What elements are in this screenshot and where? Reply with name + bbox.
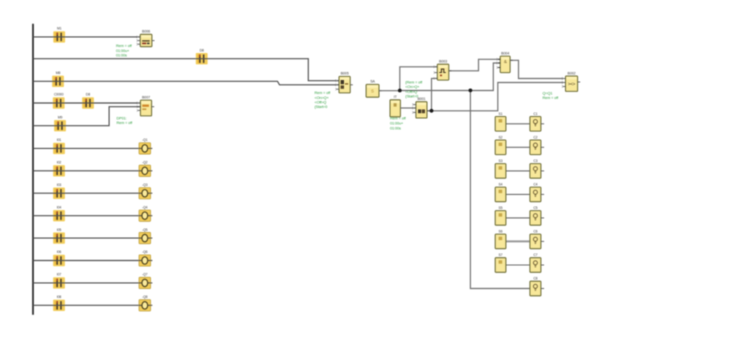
wire S2 to C2 [506,146,530,148]
svg-text:-Q4: -Q4 [142,205,148,209]
B001 parameters [405,81,423,99]
svg-text:-Q5: -Q5 [142,228,148,232]
output block C5 [530,206,544,225]
svg-text:S4: S4 [499,183,503,187]
svg-text:-Q1: -Q1 [142,138,148,142]
wire rung1 [33,36,140,38]
svg-text:-Q6: -Q6 [142,250,148,254]
wire rung I7 [33,282,152,284]
coil Q8 [139,295,151,311]
output block C3 [530,159,544,178]
coil Q3 [139,183,151,199]
coil Q1 [139,138,151,154]
svg-text:<Off>Q: <Off>Q [315,100,327,104]
output block C1 [530,112,544,131]
svg-text:Rem = off: Rem = off [390,117,407,121]
contact D8 (rung2) [196,48,208,64]
marker block S1 [495,112,506,131]
contact C0000 (rung4) [53,93,65,109]
coil Q6 [139,250,151,266]
wire S3 to C3 [506,170,530,172]
svg-text:B006: B006 [142,30,150,34]
svg-text:S1: S1 [499,112,503,116]
svg-text:M1: M1 [57,27,62,31]
svg-text:M9: M9 [58,115,63,119]
svg-text:M8: M8 [56,71,61,75]
svg-text:B007: B007 [142,95,150,99]
contact D8 (rung4) [82,93,94,109]
svg-text:01:00u+: 01:00u+ [390,122,404,126]
coil Q4 [139,205,151,221]
svg-text:C6: C6 [533,230,537,234]
contact I7 [53,273,65,289]
contact I2 [53,161,65,177]
svg-text:(Start=0: (Start=0 [405,94,418,98]
svg-text:Rem = off: Rem = off [315,91,332,95]
latch block B001 [412,97,429,118]
svg-text:I01: I01 [57,138,62,142]
svg-text:01:00s: 01:00s [390,127,401,131]
wire rung I1 [33,147,152,149]
wire rung I6 [33,260,152,262]
wire S1 to C1 [506,123,530,125]
coil Q5 [139,228,151,244]
timer block B007 [137,95,154,116]
wire S4 to C4 [506,193,530,195]
svg-text:D8: D8 [86,93,90,97]
svg-text:-Q2: -Q2 [142,161,148,165]
junction node main/down branch [469,89,473,93]
wire B003 output to B004 pin1 [449,59,501,71]
output block C8 [530,277,544,296]
svg-text:S: S [371,88,374,93]
contact M9 (rung5) [54,115,66,131]
output block C6 [530,230,544,249]
svg-text:Rem = off: Rem = off [117,121,134,125]
svg-text:B002: B002 [568,71,576,75]
svg-text:I02: I02 [57,161,62,165]
contact M8 (rung3) [52,71,64,87]
svg-text:(Rem = off: (Rem = off [405,81,423,85]
marker block S6 [495,230,506,249]
contact I6 [53,250,65,266]
left power bus rail [32,24,34,315]
contact I4 [53,205,65,221]
contact I1 [53,138,65,154]
svg-text:B004: B004 [501,51,509,55]
svg-text:C7: C7 [533,253,537,257]
svg-text:S6: S6 [499,230,503,234]
junction node B001 output [430,109,434,113]
wire IT output to B001 [400,107,416,109]
wire rung I3 [33,192,152,194]
output block C2 [530,136,544,155]
contact I5 [53,228,65,244]
B002 parameters [543,91,560,100]
svg-text:&: & [504,59,507,64]
svg-text:B003: B003 [439,60,447,64]
contact M1 (rung1) [53,27,65,43]
wire S6 to C6 [506,240,530,242]
marker block S4 [495,183,506,202]
svg-text:S5: S5 [499,206,503,210]
svg-text:I04: I04 [57,205,62,209]
contact I8 [53,295,65,311]
compare block B002 [562,71,580,91]
IT block parameters [390,117,407,131]
source block IT [390,95,403,117]
svg-text:<Off>Q: <Off>Q [405,90,417,94]
output block C7 [530,253,544,272]
svg-text:-Q3: -Q3 [142,183,148,187]
wire B004 output to B002 pin1 [510,60,563,78]
source block SA [366,80,382,98]
svg-text:D8: D8 [200,48,204,52]
wire rung3 [33,81,339,85]
svg-text:S7: S7 [499,253,503,257]
wire rung I8 [33,304,152,306]
svg-text:I08: I08 [57,295,62,299]
wire rung I2 [33,170,152,172]
coil Q7 [139,273,151,289]
logic block B004 [497,51,513,72]
wire SA output [379,90,400,92]
wire rung I4 [33,215,152,217]
svg-text:C2: C2 [533,136,537,140]
contact I3 [53,183,65,199]
wire rung4 [33,102,140,104]
svg-text:<On>Q+: <On>Q+ [405,85,420,89]
svg-text:Q=Q1: Q=Q1 [543,91,553,95]
marker block S5 [495,206,506,225]
coil Q2 [139,161,151,177]
wire S5 to C5 [506,217,530,219]
svg-text:C5: C5 [533,206,537,210]
wire rung2 to corner [33,59,339,81]
svg-text:B001: B001 [417,97,425,101]
svg-text:><>: ><> [568,82,576,87]
svg-text:01:00s: 01:00s [116,54,127,58]
wire S7 to C7 [506,264,530,266]
marker block S7 [495,253,506,272]
svg-text:S2: S2 [499,136,503,140]
svg-text:(Start=0: (Start=0 [315,105,328,109]
svg-text:C0000: C0000 [54,93,64,97]
timer B006 parameters [116,44,133,58]
svg-text:B005: B005 [341,72,349,76]
marker block S2 [495,136,506,155]
wire B001 branch up to B003 pin3 [432,78,438,110]
output block C4 [530,183,544,202]
wire branch up to B003 pin1 [400,67,438,91]
latch B005 parameters [315,91,332,109]
timer B007 parameters [117,116,134,125]
svg-text:Rem = off: Rem = off [543,96,560,100]
svg-text:<On>Q+: <On>Q+ [315,96,330,100]
svg-text:C8: C8 [533,277,537,281]
svg-text:C3: C3 [533,159,537,163]
svg-text:-Q8: -Q8 [142,295,148,299]
svg-text:01:00u+: 01:00u+ [116,49,130,53]
svg-text:DP01:: DP01: [117,116,127,120]
svg-text:I06: I06 [57,250,62,254]
wire B001 output to B002 pin2 [427,83,563,111]
wire main horizontal to B004 [400,63,500,91]
junction node after SA [398,89,402,93]
wire rung5 [33,107,140,126]
svg-text:S3: S3 [499,159,503,163]
svg-text:I07: I07 [57,273,62,277]
timer block B006 [137,30,155,47]
svg-text:C1: C1 [533,112,537,116]
svg-text:-Q7: -Q7 [142,273,148,277]
svg-text:Rem = off: Rem = off [116,44,133,48]
svg-text:SA: SA [370,80,375,84]
latch block B005 [335,72,352,93]
marker block S3 [495,159,506,178]
wire rung I5 [33,237,152,239]
pulse block B003 [434,60,452,81]
svg-text:C4: C4 [533,183,537,187]
wire branch down to C8 [470,90,530,288]
svg-text:I05: I05 [57,228,62,232]
svg-text:IT: IT [394,95,398,99]
svg-text:I03: I03 [57,183,62,187]
